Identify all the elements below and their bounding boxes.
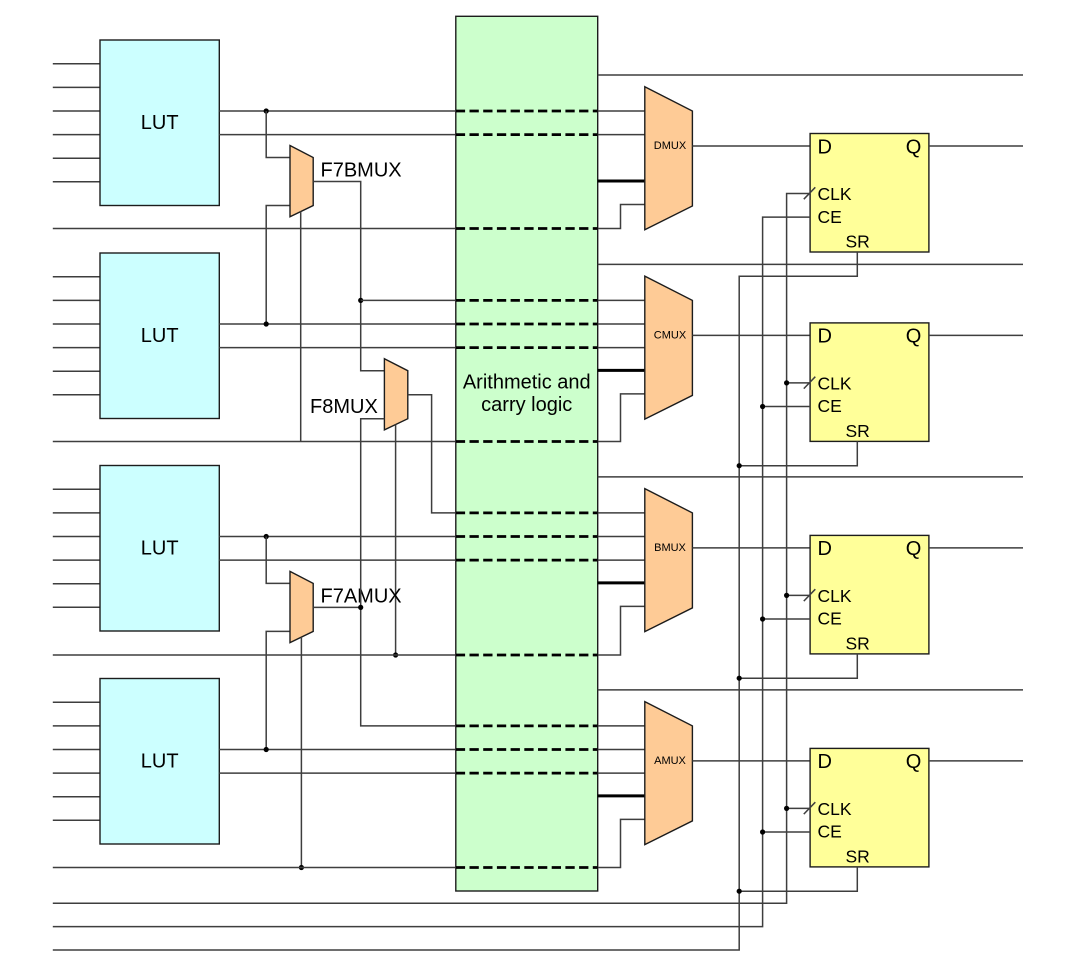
wire FFC Q output [929,334,1023,336]
wire LUT C input 2 [53,299,100,301]
wire bypass input CX [53,394,645,442]
node F8MUX select junction [393,652,398,657]
mux F7BMUX [290,146,313,217]
svg-text:D: D [818,136,832,158]
node LUT D O6 junction [264,108,269,113]
wire F8MUX output to carry logic [408,395,456,513]
dashed net AX bypass [456,866,598,869]
LUT D [100,40,219,206]
wire LUT D input 3 [53,110,100,112]
wire BMUX input 1 [598,512,645,514]
wire AMUX input 3 [598,772,645,774]
mux AMUX [645,702,693,845]
wire LUT A O5 output to carry logic [219,772,455,774]
wire FFB CE stub [763,618,811,620]
svg-text:LUT: LUT [141,538,179,560]
wire F7BMUX lower input from LUT C [266,206,290,325]
pin FFC clock edge mark [804,377,816,389]
wire FFA CLK stub [787,807,811,809]
dashed net B O6 [456,535,598,538]
wire rail C group [598,476,1023,478]
node FFA CLK junction [784,806,789,811]
svg-text:CE: CE [818,822,842,842]
dashed net A O6 [456,748,598,751]
wire BMUX input 3 [598,559,645,561]
dashed net C O6 [456,323,598,326]
wire FFB CLK stub [787,594,811,596]
flip-flop FFA [810,748,929,867]
svg-text:CE: CE [818,396,842,416]
node FFB SR junction [737,676,742,681]
svg-text:F7BMUX: F7BMUX [321,160,402,182]
svg-text:CE: CE [818,609,842,629]
wire LUT B input 1 [53,488,100,490]
wire CE net [53,217,810,927]
dashed net CX bypass [456,440,598,443]
wire CMUX carry input (bold) [598,369,645,372]
mux BMUX [645,489,693,632]
svg-text:AMUX: AMUX [654,755,686,767]
dashed net B O5 [456,559,598,562]
node FFB CLK junction [784,593,789,598]
dashed net D O5 [456,133,598,136]
svg-text:F8MUX: F8MUX [310,396,378,418]
pin FFD clock edge mark [804,187,816,199]
wire bypass input BX [53,606,645,655]
wire LUT B O6 output to carry logic [219,536,455,538]
wire LUT A input 5 [53,796,100,798]
svg-text:D: D [818,751,832,773]
node FFC CLK junction [784,380,789,385]
wire LUT B input 5 [53,583,100,585]
wire FFC SR pin [739,441,857,465]
wire LUT B O5 output to carry logic [219,559,455,561]
svg-text:LUT: LUT [141,112,179,134]
svg-text:SR: SR [846,231,870,251]
wire LUT C O5 output to carry logic [219,347,455,349]
wire BMUX input 2 [598,536,645,538]
wire AMUX input 1 [598,725,645,727]
svg-text:Q: Q [906,326,922,348]
wire FFD Q output [929,145,1023,147]
wire F7AMUX lower input from LUT A [266,631,290,749]
svg-text:CLK: CLK [818,586,852,606]
wire AMUX carry input (bold) [598,794,645,797]
wire LUT D input 6 [53,181,100,183]
node FFA CE junction [760,829,765,834]
wire LUT D O6 output to carry logic [219,110,455,112]
wire CLK net [53,194,810,904]
wire CMUX input 2 [598,323,645,325]
node F7AMUX output junction [358,605,363,610]
wire FFA CE stub [763,831,811,833]
wire rail B group [598,689,1023,691]
wire LUT B input 3 [53,536,100,538]
dashed net C F-mux output [456,299,598,302]
wire rail D group [598,263,1023,265]
wire LUT C input 5 [53,370,100,372]
wire FFC CLK stub [787,382,811,384]
wire F7BMUX select [300,212,302,442]
node FFC SR junction [737,463,742,468]
mux CMUX [645,276,693,419]
LUT A [100,679,219,845]
wire FFB SR pin [739,654,857,678]
flip-flop FFB [810,535,929,654]
wire COUT rail [598,74,1023,76]
wire F7BMUX output to carry logic and F8MUX [313,182,384,371]
node LUT B O6 junction [264,534,269,539]
wire AMUX input 2 [598,749,645,751]
flip-flop FFC [810,323,929,442]
wire LUT C input 6 [53,394,100,396]
wire LUT C input 4 [53,347,100,349]
node F7BMUX output junction [358,298,363,303]
svg-text:SR: SR [846,421,870,441]
wire CMUX output to FF D [692,334,810,336]
wire F7AMUX upper input from LUT B [266,537,290,584]
wire LUT D input 1 [53,63,100,65]
wire F7AMUX output to carry logic and F8MUX [313,419,456,726]
svg-text:Q: Q [906,538,922,560]
svg-text:LUT: LUT [141,325,179,347]
wire LUT C input 3 [53,323,100,325]
node FFC CE junction [760,404,765,409]
svg-text:carry logic: carry logic [481,394,572,416]
wire FFC CE stub [763,406,811,408]
mux F8MUX [384,359,407,430]
dashed net C O5 [456,346,598,349]
wire SR net [53,252,858,950]
wire DMUX carry input (bold) [598,180,645,183]
pin FFB clock edge mark [804,589,816,601]
wire F7BMUX upper input from LUT D [266,111,290,158]
wire BMUX output to FF D [692,547,810,549]
wire LUT C O6 output to carry logic [219,323,455,325]
wire LUT C input 1 [53,276,100,278]
wire LUT A input 3 [53,749,100,751]
wire LUT D input 2 [53,86,100,88]
dashed net B F-mux output [456,512,598,515]
wire F7BMUX output into carry logic [361,299,456,301]
svg-text:SR: SR [846,846,870,866]
wire LUT A input 2 [53,725,100,727]
wire LUT D input 5 [53,157,100,159]
svg-text:BMUX: BMUX [654,542,686,554]
svg-text:CLK: CLK [818,799,852,819]
wire LUT B input 2 [53,512,100,514]
svg-text:DMUX: DMUX [654,140,687,152]
mux DMUX [645,87,693,230]
dashed net A O5 [456,772,598,775]
svg-text:LUT: LUT [141,751,179,773]
flip-flop FFD [810,134,929,253]
wire AMUX output to FF D [692,760,810,762]
node LUT A O6 junction [264,747,269,752]
node LUT C O6 junction [264,321,269,326]
LUT C [100,253,219,419]
wire LUT A input 4 [53,772,100,774]
wire LUT A input 1 [53,701,100,703]
svg-text:D: D [818,326,832,348]
wire bypass input AX [53,819,645,867]
dashed net A F-mux output [456,725,598,728]
wire FFB Q output [929,547,1023,549]
svg-text:CMUX: CMUX [654,330,687,342]
mux F7AMUX [290,571,313,642]
wire LUT B input 6 [53,606,100,608]
wire CMUX input 1 [598,299,645,301]
dashed net BX bypass [456,654,598,657]
wire DMUX input 1 [598,110,645,112]
svg-text:CLK: CLK [818,374,852,394]
node FFA SR junction [737,889,742,894]
node FFB CE junction [760,616,765,621]
wire DMUX output to FF D [692,145,810,147]
wire BMUX carry input (bold) [598,581,645,584]
wire bypass input DX [53,205,645,229]
pin FFA clock edge mark [804,802,816,814]
svg-text:D: D [818,538,832,560]
wire LUT D input 4 [53,134,100,136]
wire DMUX input 2 [598,134,645,136]
wire F8MUX select [395,425,397,656]
svg-text:SR: SR [846,633,870,653]
svg-text:Q: Q [906,751,922,773]
wire LUT D O5 output to carry logic [219,134,455,136]
wire LUT A O6 output to carry logic [219,749,455,751]
wire F7AMUX select [300,637,302,867]
svg-text:CE: CE [818,207,842,227]
LUT B [100,466,219,632]
wire CMUX input 3 [598,347,645,349]
dashed net DX bypass [456,227,598,230]
wire LUT B input 4 [53,559,100,561]
carry logic block (Arithmetic and carry logic) [456,16,598,891]
wire FFA SR pin [739,867,857,891]
wire LUT A input 6 [53,819,100,821]
svg-text:Arithmetic and: Arithmetic and [463,372,591,394]
svg-text:Q: Q [906,136,922,158]
svg-text:CLK: CLK [818,184,852,204]
dashed net D O6 [456,110,598,113]
wire FFA Q output [929,760,1023,762]
node F7AMUX select junction [299,865,304,870]
